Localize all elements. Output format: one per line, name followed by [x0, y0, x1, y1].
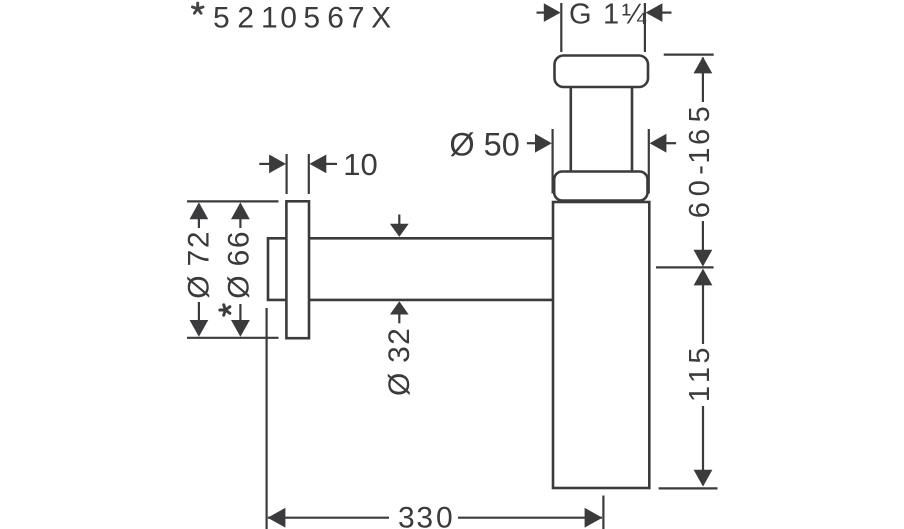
svg-text:G1¼: G1¼	[569, 0, 647, 30]
svg-text:Ø32: Ø32	[383, 328, 416, 396]
svg-text:10: 10	[343, 147, 377, 182]
svg-text:115: 115	[684, 347, 716, 402]
svg-text:Ø 50: Ø 50	[449, 127, 519, 163]
svg-text:Ø66: Ø66	[223, 231, 256, 298]
svg-text:Ø72: Ø72	[182, 231, 215, 298]
svg-text:330: 330	[398, 502, 453, 529]
